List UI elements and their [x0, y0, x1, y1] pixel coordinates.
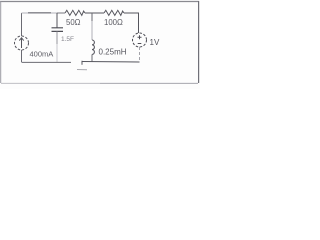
- resistor R2 zigzag: [104, 10, 124, 15]
- svg-text:100Ω: 100Ω: [104, 18, 123, 27]
- wire: darker dash on top-left rail: [28, 12, 51, 14]
- background: [0, 0, 200, 89]
- svg-text:0.25mH: 0.25mH: [99, 48, 127, 57]
- resistor R1 zigzag: [65, 10, 85, 15]
- capacitor C1 plates: [52, 28, 64, 32]
- capacitor C1 bottom lead faint part: [56, 44, 58, 62]
- wire: current source bottom lead: [21, 50, 23, 62]
- inductor L1 top lead: [91, 13, 93, 21]
- voltage source V1: [133, 33, 147, 47]
- wire: bottom rail right segment: [82, 61, 140, 64]
- frame bottom edge right part: [100, 82, 198, 84]
- stray mark below bottom rail: [77, 69, 87, 71]
- frame right edge: [198, 1, 200, 83]
- capacitor C1 branch lead: [56, 13, 58, 28]
- wire: voltage source bottom lead: [139, 47, 141, 62]
- svg-text:50Ω: 50Ω: [66, 18, 81, 27]
- wire: top rail right segment and right drop: [124, 13, 139, 33]
- inductor L1 top lead faint part: [91, 21, 93, 40]
- wire: rail segment junction to R1: [57, 12, 65, 14]
- wire: rail between R1 and R2: [85, 12, 104, 14]
- current source I1: [15, 36, 29, 50]
- frame left edge: [0, 1, 2, 83]
- wire: top rail left segment: [22, 12, 65, 14]
- inductor L1 bottom lead: [91, 54, 93, 62]
- svg-text:1V: 1V: [150, 38, 160, 47]
- frame top edge: [0, 1, 199, 3]
- svg-text:1.5F: 1.5F: [61, 36, 74, 43]
- svg-text:400mA: 400mA: [30, 50, 54, 59]
- wire: bottom rail left segment: [22, 61, 72, 63]
- wire: top-left vertical from current source to top rail: [21, 13, 23, 36]
- inductor L1 coil: [92, 40, 94, 54]
- frame bottom edge: [1, 82, 100, 84]
- wire: bottom rail jog tick: [81, 61, 83, 65]
- capacitor C1 bottom lead: [56, 31, 58, 44]
